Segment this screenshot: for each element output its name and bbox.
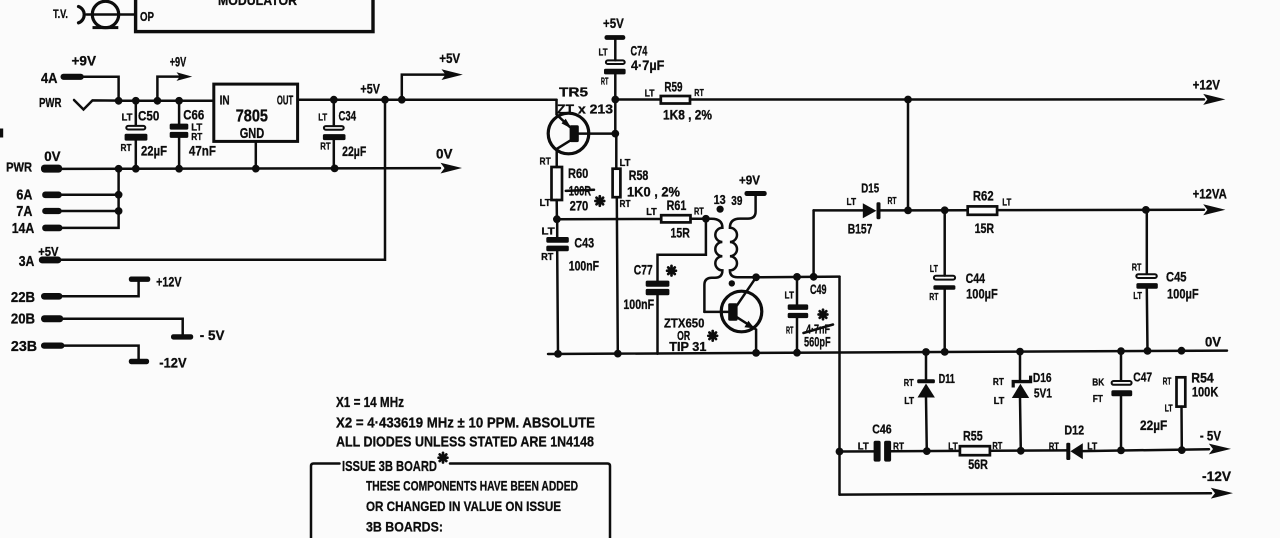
svg-text:LT: LT bbox=[858, 441, 870, 453]
svg-text:RT: RT bbox=[620, 198, 631, 210]
-12V power bar at 23B bbox=[129, 359, 149, 365]
capacitor C34 bbox=[330, 96, 338, 104]
svg-text:RT: RT bbox=[1163, 376, 1172, 388]
svg-text:R61: R61 bbox=[667, 198, 687, 213]
-12V rail bbox=[840, 493, 1212, 494]
+9V off-page arrow bbox=[157, 77, 179, 101]
svg-text:RT: RT bbox=[904, 377, 914, 389]
svg-text:THESE COMPONENTS HAVE BEEN ADD: THESE COMPONENTS HAVE BEEN ADDED bbox=[366, 478, 578, 494]
node dot +12V branch bbox=[904, 96, 912, 104]
node dot C45 bottom bbox=[1144, 347, 1152, 355]
transistor TR4 ZTX650 bbox=[721, 291, 762, 332]
svg-text:+9V: +9V bbox=[739, 173, 760, 188]
svg-text:22µF: 22µF bbox=[1140, 417, 1168, 433]
svg-text:22B: 22B bbox=[11, 290, 35, 306]
svg-text:47nF: 47nF bbox=[189, 143, 216, 159]
svg-text:RT: RT bbox=[601, 76, 609, 88]
capacitor C66 bbox=[178, 101, 181, 124]
resistor R58 bbox=[613, 169, 621, 198]
wire node down to C77 bbox=[658, 219, 706, 281]
modulator box bbox=[136, 0, 373, 32]
node dot C66 top bbox=[175, 97, 183, 105]
svg-text:RT: RT bbox=[191, 131, 202, 143]
svg-text:R58: R58 bbox=[629, 168, 649, 183]
svg-text:RT: RT bbox=[1049, 441, 1059, 453]
regulator U 7805 box bbox=[214, 84, 298, 141]
pin 22B bar bbox=[41, 293, 62, 300]
node dot R54 top bbox=[1178, 347, 1186, 355]
PWR 0V pin bar bbox=[41, 165, 62, 173]
node dot TR5 base line bbox=[611, 130, 619, 138]
svg-text:15R: 15R bbox=[975, 221, 995, 236]
svg-text:4A: 4A bbox=[41, 71, 58, 87]
svg-text:OP: OP bbox=[140, 9, 154, 24]
wire D15 anode branch down to -12V corner bbox=[838, 277, 841, 495]
collector node line to D15 branch bbox=[756, 275, 839, 278]
TV aerial plug arc bbox=[79, 7, 85, 23]
wire 7A bbox=[62, 210, 119, 213]
svg-text:3A: 3A bbox=[19, 254, 35, 270]
node dot TR4 emitter bbox=[752, 349, 760, 357]
svg-text:R60: R60 bbox=[568, 166, 588, 181]
node dot R58 bottom bbox=[614, 350, 622, 358]
svg-text:C34: C34 bbox=[339, 107, 357, 123]
pin 6A bar bbox=[42, 192, 62, 199]
diode D15 bbox=[812, 210, 815, 276]
svg-text:39: 39 bbox=[731, 193, 742, 208]
svg-text:+12V: +12V bbox=[156, 274, 181, 289]
node dot collector / secondary bbox=[752, 273, 760, 281]
node dot C49 bottom bbox=[793, 349, 801, 357]
node dot C50 bottom bbox=[132, 165, 140, 173]
node dot C49 top bbox=[793, 273, 801, 281]
transformer secondary winding (right) bbox=[730, 196, 756, 278]
svg-text:LT: LT bbox=[948, 441, 958, 453]
svg-text:D16: D16 bbox=[1033, 370, 1052, 385]
svg-text:+12VA: +12VA bbox=[1193, 187, 1227, 202]
wire through socket to modulator bbox=[87, 13, 136, 16]
-5V rail bbox=[840, 450, 874, 453]
7805 output wire to TR5 bbox=[298, 98, 557, 101]
svg-text:LT: LT bbox=[541, 226, 555, 238]
diode D11 bbox=[925, 352, 928, 379]
node dot 3A branch bbox=[381, 96, 389, 104]
svg-text:MODULATOR: MODULATOR bbox=[218, 0, 297, 8]
svg-text:RT: RT bbox=[121, 142, 132, 154]
7805 GND lead bbox=[255, 141, 258, 168]
svg-text:LT: LT bbox=[645, 87, 655, 99]
svg-text:RT: RT bbox=[694, 205, 704, 217]
svg-text:D12: D12 bbox=[1064, 423, 1084, 438]
svg-text:RT: RT bbox=[1132, 261, 1142, 273]
svg-text:B157: B157 bbox=[848, 221, 873, 237]
node dot C43 bottom bbox=[554, 350, 562, 358]
node dot R61 right / transformer bbox=[702, 215, 710, 223]
+5V off-page arrow bbox=[402, 75, 447, 100]
+5V power bar at C74 bbox=[605, 35, 626, 40]
wire base node down to R58 bbox=[614, 100, 617, 134]
svg-text:T.V.: T.V. bbox=[53, 9, 68, 21]
wire +5V down to pin 3A bbox=[61, 100, 385, 260]
resistor R54 bbox=[1177, 377, 1186, 406]
svg-text:0V: 0V bbox=[1205, 335, 1221, 350]
svg-text:23B: 23B bbox=[11, 339, 37, 355]
svg-text:R55: R55 bbox=[963, 429, 983, 444]
+9V power bar at transformer bbox=[745, 191, 767, 196]
node dot D15 branch bbox=[810, 273, 818, 281]
transformer phase dot bottom bbox=[729, 280, 735, 286]
+12VA rail arrow bbox=[997, 209, 1204, 212]
svg-text:+5V: +5V bbox=[360, 82, 380, 97]
svg-text:GND: GND bbox=[240, 125, 265, 142]
svg-text:C46: C46 bbox=[872, 422, 891, 437]
node dot C44 top bbox=[908, 209, 968, 212]
svg-text:- 5V: - 5V bbox=[200, 328, 225, 343]
svg-text:100µF: 100µF bbox=[1167, 286, 1199, 302]
svg-text:PWR: PWR bbox=[39, 95, 62, 110]
pin 4A bar bbox=[61, 74, 84, 80]
svg-text:C47: C47 bbox=[1133, 370, 1152, 385]
svg-text:56R: 56R bbox=[968, 457, 988, 472]
capacitor C74 bbox=[614, 40, 617, 60]
svg-text:LT: LT bbox=[1002, 197, 1012, 209]
node dot TR5 base / C74 / R59 bbox=[611, 96, 619, 104]
svg-text:0V: 0V bbox=[44, 149, 60, 164]
svg-text:LT: LT bbox=[994, 395, 1005, 407]
svg-text:7805: 7805 bbox=[236, 106, 269, 126]
svg-text:R62: R62 bbox=[973, 189, 994, 204]
svg-text:1K8 , 2%: 1K8 , 2% bbox=[663, 108, 712, 123]
resistor R62 bbox=[968, 206, 997, 214]
transistor TR5 bbox=[548, 113, 589, 154]
svg-text:560pF: 560pF bbox=[804, 334, 831, 350]
wire 23B to -12V bar bbox=[64, 346, 138, 359]
svg-text:LT: LT bbox=[318, 112, 327, 124]
TV aerial socket circle bbox=[92, 1, 118, 27]
asterisk at C49 bbox=[819, 310, 828, 320]
capacitor C47 bbox=[1120, 351, 1123, 381]
svg-text:D15: D15 bbox=[861, 181, 879, 196]
wire 6A bbox=[62, 194, 119, 197]
pin 23B bar bbox=[41, 343, 64, 349]
+12V power bar at 22B bbox=[129, 277, 151, 282]
svg-text:LT: LT bbox=[930, 263, 939, 275]
PWR squiggle lead bbox=[74, 100, 119, 110]
wire PWR node to 7805 IN bbox=[119, 100, 214, 103]
svg-text:22µF: 22µF bbox=[342, 143, 367, 159]
pin 20B bar bbox=[41, 315, 63, 322]
zener diode D16 bbox=[1019, 352, 1022, 380]
svg-text:OUT: OUT bbox=[277, 94, 294, 108]
svg-text:100nF: 100nF bbox=[623, 297, 654, 312]
-5V power bar at 20B bbox=[171, 334, 193, 339]
asterisk at R60 bbox=[595, 196, 604, 206]
svg-text:LT: LT bbox=[646, 206, 657, 218]
svg-text:LT: LT bbox=[904, 395, 914, 407]
capacitor C50 bbox=[135, 101, 138, 126]
diode D12 bbox=[1066, 443, 1070, 460]
svg-text:LT: LT bbox=[1133, 290, 1142, 302]
transformer phase dot top bbox=[717, 206, 724, 213]
svg-text:TR5: TR5 bbox=[559, 85, 588, 100]
svg-text:OR CHANGED IN VALUE ON ISSUE: OR CHANGED IN VALUE ON ISSUE bbox=[366, 498, 561, 514]
resistor R59 bbox=[615, 98, 661, 101]
pin 14A bar bbox=[42, 225, 62, 232]
svg-text:270: 270 bbox=[570, 199, 589, 214]
svg-text:C77: C77 bbox=[634, 262, 653, 278]
svg-text:LT: LT bbox=[1165, 403, 1173, 415]
svg-text:+5V: +5V bbox=[439, 51, 460, 66]
svg-text:LT: LT bbox=[785, 290, 795, 302]
svg-text:TIP 31: TIP 31 bbox=[669, 339, 706, 354]
node line TR5 collector to R61 bbox=[557, 218, 661, 221]
svg-text:RT: RT bbox=[694, 87, 704, 99]
svg-text:-12V: -12V bbox=[1202, 469, 1231, 484]
transformer primary winding (left) bbox=[704, 219, 722, 312]
node dot R60 bottom bbox=[553, 215, 561, 223]
svg-text:0V: 0V bbox=[436, 147, 453, 162]
svg-text:-12V: -12V bbox=[159, 356, 186, 371]
resistor R55 bbox=[960, 446, 990, 455]
svg-text:5V1: 5V1 bbox=[1034, 386, 1052, 401]
node dot +9V arrow branch bbox=[154, 97, 162, 105]
svg-text:+9V: +9V bbox=[72, 54, 97, 69]
svg-text:C66: C66 bbox=[183, 107, 204, 123]
node dot 0V rail / pins branch bbox=[115, 165, 123, 173]
svg-text:4·7µF: 4·7µF bbox=[631, 57, 665, 73]
svg-text:20B: 20B bbox=[11, 312, 35, 328]
resistor R60 bbox=[552, 167, 563, 200]
svg-text:RT: RT bbox=[993, 376, 1004, 388]
node dot C50 top bbox=[132, 97, 140, 105]
socket base bar bbox=[93, 26, 119, 29]
svg-text:22µF: 22µF bbox=[141, 143, 167, 159]
wire 22B to +12V bar bbox=[62, 281, 138, 296]
capacitor C43 bbox=[556, 219, 559, 237]
svg-text:IN: IN bbox=[220, 94, 230, 108]
svg-text:100µF: 100µF bbox=[966, 286, 998, 302]
pin 3A bar bbox=[39, 257, 62, 264]
wire +12V rail down to D15 cathode bbox=[907, 100, 910, 211]
wire 4A to PWR node bbox=[84, 77, 119, 101]
asterisk at C77 bbox=[667, 266, 676, 276]
capacitor C45 bbox=[1146, 210, 1149, 274]
scan edge artifact bbox=[0, 129, 3, 138]
capacitor C46 bbox=[874, 441, 881, 462]
svg-text:RT: RT bbox=[786, 324, 794, 336]
wire 20B to -5V bar bbox=[63, 319, 183, 335]
svg-text:100nF: 100nF bbox=[569, 259, 599, 274]
svg-text:+5V: +5V bbox=[603, 16, 624, 31]
svg-text:+9V: +9V bbox=[170, 54, 187, 69]
svg-text:C50: C50 bbox=[138, 107, 159, 123]
svg-text:- 5V: - 5V bbox=[1200, 429, 1221, 444]
svg-text:R59: R59 bbox=[664, 80, 682, 95]
svg-text:FT: FT bbox=[1093, 393, 1104, 405]
svg-text:X1 = 14 MHz: X1 = 14 MHz bbox=[336, 394, 404, 411]
node dot C47 top bbox=[1117, 347, 1125, 355]
-5V rail arrowhead bbox=[1209, 444, 1231, 455]
svg-text:7A: 7A bbox=[16, 204, 32, 220]
asterisk at TR4 bbox=[708, 331, 717, 341]
0V rail with arrow bbox=[62, 167, 440, 170]
svg-text:LT: LT bbox=[122, 112, 134, 124]
svg-text:13: 13 bbox=[714, 192, 726, 207]
svg-text:RT: RT bbox=[541, 251, 554, 263]
svg-text:RT: RT bbox=[929, 291, 939, 303]
svg-text:14A: 14A bbox=[12, 221, 35, 237]
node dot C66 bottom bbox=[175, 165, 183, 173]
svg-text:C74: C74 bbox=[631, 42, 648, 58]
capacitor C77 bbox=[646, 281, 670, 287]
capacitor C49 bbox=[796, 277, 799, 305]
svg-text:+12V: +12V bbox=[1193, 78, 1220, 93]
svg-text:D11: D11 bbox=[939, 371, 955, 386]
wire 14A bbox=[62, 169, 118, 228]
svg-text:C43: C43 bbox=[574, 234, 594, 250]
svg-text:LT: LT bbox=[847, 196, 857, 208]
issue 3B note box bbox=[311, 464, 340, 538]
capacitor C44 bbox=[943, 210, 946, 275]
svg-text:6A: 6A bbox=[16, 188, 32, 204]
svg-text:100K: 100K bbox=[1192, 385, 1219, 400]
svg-text:LT: LT bbox=[540, 197, 552, 209]
node dot C44 bottom bbox=[941, 348, 949, 356]
svg-text:15R: 15R bbox=[671, 226, 690, 241]
node dot D11 top bbox=[922, 348, 930, 356]
+12V rail arrow bbox=[908, 98, 1204, 101]
svg-text:LT: LT bbox=[599, 47, 609, 59]
svg-text:PWR: PWR bbox=[6, 160, 33, 175]
resistor R61 bbox=[661, 215, 690, 222]
node dot +5V arrow branch bbox=[398, 96, 406, 104]
svg-text:R54: R54 bbox=[1191, 371, 1214, 386]
svg-text:X2 = 4·433619 MHz ± 10 PPM. A: X2 = 4·433619 MHz ± 10 PPM. ABSOLUTE bbox=[336, 415, 595, 432]
svg-text:RT: RT bbox=[320, 141, 331, 153]
svg-text:ISSUE 3B BOARD: ISSUE 3B BOARD bbox=[342, 459, 437, 475]
svg-text:C44: C44 bbox=[966, 270, 986, 286]
node dot PWR/4A bbox=[115, 97, 123, 105]
node dot D16 top bbox=[1016, 348, 1024, 356]
svg-text:ALL DIODES UNLESS STATED ARE 1: ALL DIODES UNLESS STATED ARE 1N4148 bbox=[336, 434, 594, 451]
pin 7A bar bbox=[42, 208, 62, 214]
asterisk at issue title bbox=[439, 453, 448, 463]
svg-text:RT: RT bbox=[888, 195, 897, 207]
svg-text:BK: BK bbox=[1092, 377, 1104, 389]
svg-text:C49: C49 bbox=[810, 281, 827, 297]
svg-text:3B BOARDS:: 3B BOARDS: bbox=[366, 519, 443, 535]
0V bottom rail bbox=[548, 351, 1227, 354]
svg-text:C45: C45 bbox=[1166, 269, 1187, 285]
svg-text:RT: RT bbox=[540, 156, 552, 168]
